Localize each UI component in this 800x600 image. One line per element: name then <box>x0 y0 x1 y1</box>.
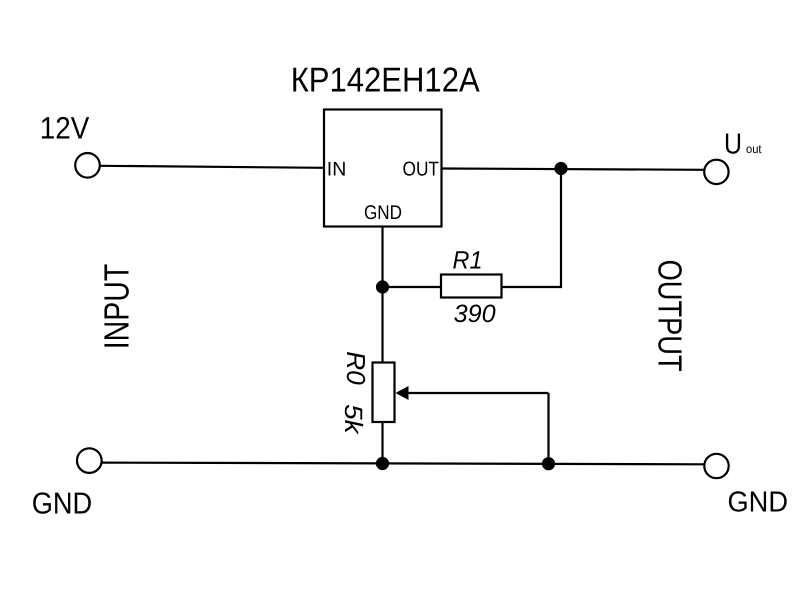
label INPUT <box>98 264 137 350</box>
label R1 <box>453 247 483 275</box>
wire R1 left to GND net junction <box>383 286 442 288</box>
svg-text:GND: GND <box>728 487 789 519</box>
pin label IN <box>327 158 347 180</box>
junction node OUT <box>554 162 567 175</box>
label OUTPUT <box>651 260 688 372</box>
svg-text:R1: R1 <box>453 247 483 275</box>
svg-text:GND: GND <box>364 202 402 224</box>
terminal GND left <box>77 448 102 473</box>
wire OUT pin to output terminal <box>442 169 704 170</box>
terminal 12V input <box>75 153 100 178</box>
svg-text:OUTPUT: OUTPUT <box>651 260 688 372</box>
label U out <box>724 128 762 160</box>
regulator U1 body <box>324 110 442 227</box>
wire bottom GND rail <box>102 463 704 465</box>
svg-text:INPUT: INPUT <box>98 264 137 350</box>
wire 12V terminal to IN pin <box>101 166 325 168</box>
wire R1 right side <box>502 286 563 288</box>
svg-text:out: out <box>746 142 762 156</box>
svg-text:390: 390 <box>454 300 496 328</box>
wire R0 bottom to rail <box>381 422 383 464</box>
svg-text:GND: GND <box>32 487 92 520</box>
svg-text:КР142ЕН12А: КР142ЕН12А <box>291 61 480 99</box>
svg-text:OUT: OUT <box>403 158 440 180</box>
terminal GND right <box>704 454 728 478</box>
resistor R1 body <box>441 275 502 298</box>
junction node R0 bottom <box>376 457 389 470</box>
pin label GND <box>364 202 402 224</box>
svg-text:12V: 12V <box>40 111 90 146</box>
label R0 <box>341 351 371 385</box>
wiper arrow of R0 <box>396 386 549 400</box>
wire wiper down to bottom rail <box>547 393 549 464</box>
wire junction down to R1 level <box>560 169 562 288</box>
svg-text:5k: 5k <box>339 404 367 435</box>
svg-text:U: U <box>724 128 742 160</box>
junction node ADJ <box>376 280 389 293</box>
label 12V <box>40 111 90 146</box>
label GND left <box>32 487 92 520</box>
label 390 <box>454 300 496 328</box>
pin label OUT <box>403 158 440 180</box>
svg-text:R0: R0 <box>341 351 371 385</box>
terminal U out <box>704 160 728 184</box>
svg-text:IN: IN <box>327 158 347 180</box>
regulator U1 label КР142ЕН12А <box>291 61 480 99</box>
label GND right <box>728 487 789 519</box>
potentiometer R0 body <box>373 363 395 423</box>
wire GND pin down to R0 <box>381 227 383 363</box>
junction node wiper bottom <box>542 457 555 470</box>
label 5k <box>339 404 367 435</box>
